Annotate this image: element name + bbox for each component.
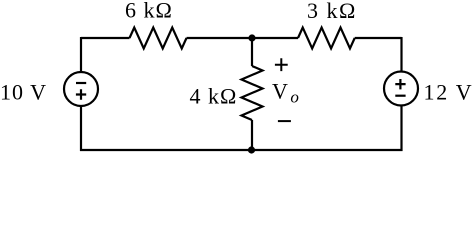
- wire top-right segment: [355, 37, 402, 39]
- resistor R2 3k zigzag: [298, 28, 355, 49]
- svg-text:4 kΩ: 4 kΩ: [190, 83, 238, 108]
- wire right vertical bottom: [400, 106, 402, 152]
- svg-text:10 V: 10 V: [0, 80, 47, 105]
- wire top-left segment: [81, 37, 130, 39]
- node B bottom junction: [248, 146, 255, 153]
- wire top-middle segment: [187, 37, 299, 39]
- wire left vertical top: [80, 37, 82, 72]
- node A top junction: [248, 34, 255, 41]
- wire bottom: [80, 149, 403, 151]
- V2 minus sign: [395, 95, 405, 97]
- wire right vertical top: [400, 37, 402, 72]
- svg-text:6 kΩ: 6 kΩ: [125, 0, 173, 22]
- V1 plus sign: [76, 89, 86, 99]
- V1 minus sign: [76, 82, 86, 84]
- wire left vertical bottom: [80, 106, 82, 151]
- svg-text:12 V: 12 V: [424, 80, 474, 105]
- wire middle branch top: [251, 38, 253, 66]
- resistor R3 4k zigzag: [242, 66, 263, 120]
- wire middle branch bottom: [251, 120, 253, 150]
- voltage source V1 circle: [64, 72, 98, 106]
- svg-text:3 kΩ: 3 kΩ: [307, 0, 357, 23]
- label Vo plus polarity: [275, 58, 288, 71]
- voltage source V2 circle: [384, 72, 418, 106]
- resistor R1 6k zigzag: [130, 28, 187, 49]
- V2 plus sign: [395, 79, 405, 89]
- label Vo minus polarity: [278, 120, 291, 122]
